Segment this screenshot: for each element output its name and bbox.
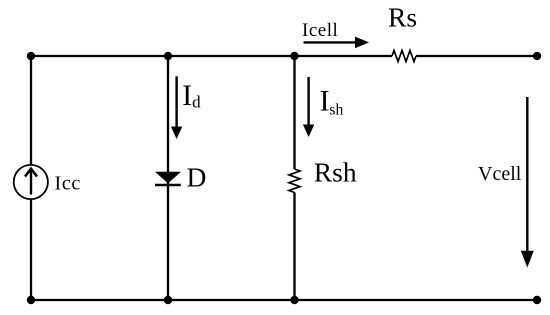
arrow Vcell <box>521 97 534 268</box>
resistor Rs <box>392 51 416 62</box>
node bottom-left <box>27 296 35 304</box>
resistor Rsh <box>289 169 300 192</box>
svg-text:D: D <box>187 162 207 193</box>
arrow Ish <box>303 77 314 137</box>
svg-text:Vcell: Vcell <box>478 163 522 185</box>
node bottom shunt <box>290 296 298 304</box>
svg-text:Icc: Icc <box>55 173 82 195</box>
arrow Icell <box>304 37 370 49</box>
wire top-left segment <box>31 55 392 57</box>
wire left upper <box>30 56 32 165</box>
svg-text:Rsh: Rsh <box>314 157 357 188</box>
current source Icc circle <box>14 165 48 199</box>
svg-text:Icell: Icell <box>302 20 338 41</box>
diode D <box>155 172 181 185</box>
wire shunt branch upper <box>293 56 295 169</box>
node top-left <box>27 52 35 60</box>
wire diode branch <box>167 56 169 300</box>
arrow Id <box>171 76 182 139</box>
svg-text:Rs: Rs <box>388 2 417 33</box>
node bottom-right terminal <box>533 296 541 304</box>
node bottom diode <box>164 296 172 304</box>
wire left lower <box>30 199 32 300</box>
wire top-right segment <box>416 55 537 57</box>
svg-text:Id: Id <box>182 80 201 112</box>
node top-right terminal <box>533 52 541 60</box>
node top diode <box>164 52 172 60</box>
node top shunt <box>290 52 298 60</box>
svg-text:Ish: Ish <box>320 86 344 119</box>
wire shunt branch lower <box>293 193 295 301</box>
wire bottom <box>31 299 537 301</box>
